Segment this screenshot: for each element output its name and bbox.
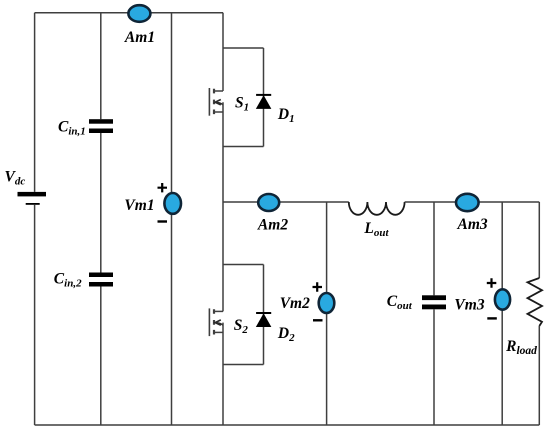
label Vm2 minus: [313, 319, 323, 321]
capacitor Cout: [422, 295, 446, 309]
mosfet S1: [209, 88, 223, 116]
label Am2: [257, 217, 288, 234]
svg-text:Vm3: Vm3: [454, 297, 484, 314]
wire S1 box top: [223, 47, 264, 49]
wire S2 box top: [223, 264, 264, 266]
voltmeter Vm1: [164, 193, 181, 214]
svg-text:Lout: Lout: [363, 220, 389, 239]
label Am3: [457, 216, 488, 233]
wire Rload branch lower: [538, 326, 540, 425]
wire top bus: [35, 12, 223, 14]
wire Rload branch upper: [538, 202, 540, 278]
ammeter Am2: [258, 194, 279, 211]
label Cin,2: [54, 270, 82, 289]
svg-text:Vm1: Vm1: [124, 197, 154, 214]
diode D1: [256, 95, 271, 109]
wire S-branch middle: [222, 102, 224, 264]
wire S-branch lower: [222, 365, 224, 426]
capacitor Cin,2: [89, 273, 113, 287]
svg-text:S2: S2: [234, 317, 249, 336]
svg-text:Am1: Am1: [124, 29, 155, 46]
wire bottom bus: [35, 424, 540, 426]
wire Vm3 branch: [501, 202, 503, 425]
label Cout: [387, 293, 413, 312]
wire S2 box vertical bottom: [222, 323, 224, 365]
label Vm2: [280, 295, 310, 312]
wire S-branch top: [222, 13, 224, 91]
svg-text:D1: D1: [277, 106, 295, 125]
mosfet S2: [209, 308, 223, 336]
svg-text:Am2: Am2: [257, 217, 288, 234]
wire middle bus right: [405, 201, 540, 203]
wire Vm1 branch: [171, 13, 173, 425]
wire left branch upper: [34, 13, 36, 192]
svg-text:Cin,2: Cin,2: [54, 270, 82, 289]
inductor Lout: [349, 202, 405, 215]
svg-text:Vm2: Vm2: [280, 295, 310, 312]
wire Cin branch lower: [100, 287, 102, 426]
svg-text:Cin,1: Cin,1: [58, 119, 86, 138]
svg-text:Rload: Rload: [505, 338, 537, 357]
wire Cin branch upper: [100, 13, 102, 120]
ammeter Am1: [128, 5, 150, 22]
svg-text:Cout: Cout: [387, 293, 413, 312]
label Vm1 minus: [158, 220, 168, 222]
wire Cout branch lower: [433, 309, 435, 425]
wire Cout branch upper: [433, 202, 435, 295]
wire S2 box vertical top: [222, 265, 224, 312]
resistor Rload: [528, 278, 543, 326]
battery Vdc: [18, 192, 47, 205]
wire D1 branch: [263, 48, 265, 147]
svg-text:Vdc: Vdc: [5, 169, 26, 188]
capacitor Cin,1: [89, 119, 113, 133]
svg-text:D2: D2: [277, 325, 295, 344]
svg-text:Am3: Am3: [457, 216, 488, 233]
label Vm2 plus: [313, 282, 323, 291]
voltmeter Vm3: [495, 289, 510, 309]
label Vm3: [454, 297, 484, 314]
label D2: [277, 325, 295, 344]
voltmeter Vm2: [319, 293, 335, 313]
label Vm3 minus: [487, 317, 497, 319]
label Cin,1: [58, 119, 86, 138]
wire D2 branch: [263, 265, 265, 365]
wire S2 box bottom: [223, 364, 264, 366]
label Am1: [124, 29, 155, 46]
label S2: [234, 317, 249, 336]
svg-text:S1: S1: [235, 95, 249, 114]
ammeter Am3: [456, 194, 479, 211]
wire middle bus left: [223, 201, 349, 203]
label Vm1: [124, 197, 154, 214]
label D1: [277, 106, 295, 125]
label Vm1 plus: [158, 183, 168, 192]
label Vdc: [5, 169, 26, 188]
wire Cin branch middle: [100, 133, 102, 273]
wire S1 box bottom: [223, 146, 264, 148]
wire left branch lower: [34, 205, 36, 425]
wire Vm2 branch: [326, 202, 328, 425]
label Lout: [363, 220, 389, 239]
label Vm3 plus: [487, 278, 497, 287]
label Rload: [505, 338, 537, 357]
label S1: [235, 95, 249, 114]
diode D2: [256, 313, 271, 327]
